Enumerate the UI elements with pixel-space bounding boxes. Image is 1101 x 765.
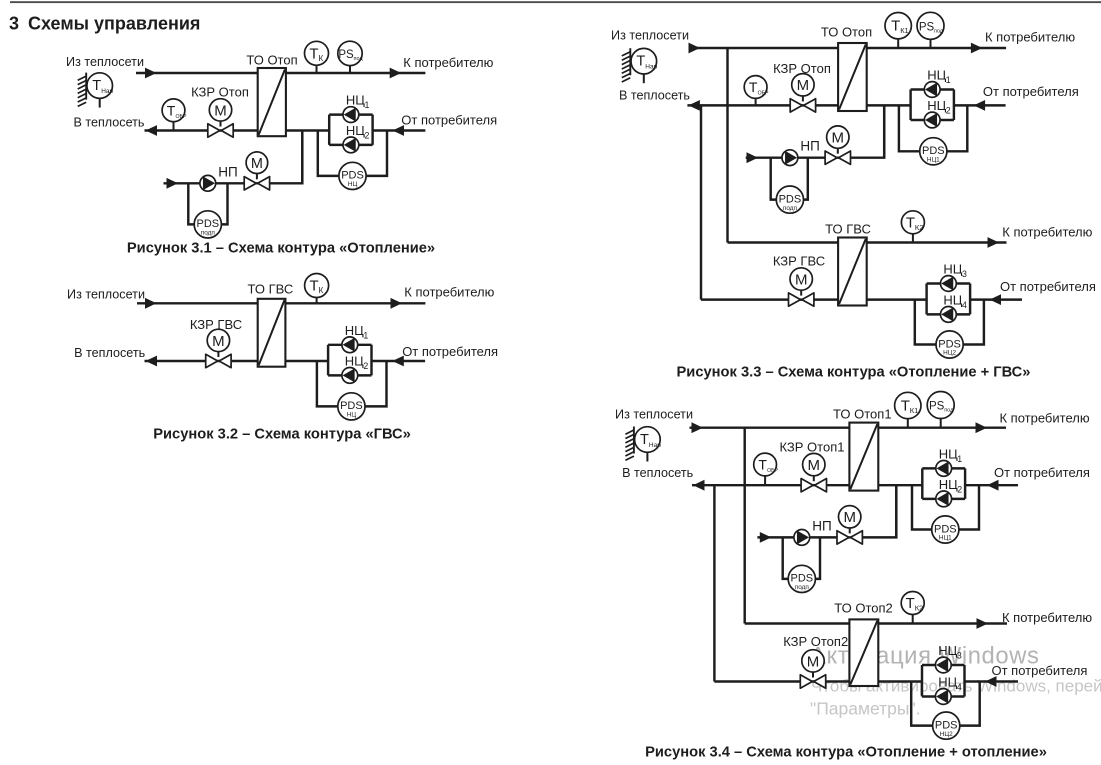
wire: fig 3.3 ГВС return pipe from consumer — [867, 298, 927, 300]
label НЦ2 (fig 3.4) — [939, 477, 963, 495]
svg-text:Рисунок 3.4 – Схема контура «О: Рисунок 3.4 – Схема контура «Отопление +… — [645, 744, 1047, 760]
svg-text:В теплосеть: В теплосеть — [74, 346, 145, 360]
svg-text:Рисунок 3.1 – Схема контура «О: Рисунок 3.1 – Схема контура «Отопление» — [127, 241, 435, 257]
wire: fig 3.1 PDS подп sensing loop — [188, 183, 227, 224]
watermark line 2 — [811, 677, 1101, 696]
svg-text:T: T — [167, 102, 176, 118]
label НЦ4 (fig 3.4) — [938, 675, 962, 693]
label КЗР Отоп1 (fig 3.4) — [780, 440, 845, 455]
label Из теплосети (fig 3.2) — [67, 288, 145, 302]
label КЗР Отоп (fig 3.3) — [773, 61, 831, 76]
svg-text:НЦ: НЦ — [347, 412, 357, 419]
arrow: make-up inlet (fig 3.1) — [167, 178, 179, 189]
svg-text:под: под — [934, 28, 944, 34]
sensor PDS НЦ2 (fig 3.4) — [933, 712, 960, 739]
label От потребителя (fig 3.4) — [994, 465, 1090, 480]
svg-text:подп: подп — [201, 230, 216, 237]
svg-text:PDS: PDS — [922, 145, 945, 157]
arrow: return flow (fig 3.2) — [146, 356, 158, 367]
wire: fig 3.4 make-up line riser to return pipe — [850, 485, 897, 537]
wire: fig 3.4 PDS НЦ1 sensing loop — [912, 485, 979, 529]
wire: fig 3.4 Отоп2 supply pipe to consumer — [878, 622, 1007, 624]
svg-text:К потребителю: К потребителю — [1002, 225, 1092, 240]
arrow: from consumer (fig 3.4) — [987, 480, 999, 491]
svg-text:НЦ1: НЦ1 — [939, 535, 952, 542]
label К потребителю Отоп2 (fig 3.4) — [1002, 610, 1092, 625]
svg-text:ОБР: ОБР — [767, 468, 778, 474]
svg-text:К2: К2 — [915, 223, 924, 232]
arrow: to consumer (fig 3.2) — [391, 298, 403, 309]
sensor PSпод supply pressure switch (fig 3.3) — [917, 12, 944, 48]
caption figure 3.2 — [153, 426, 411, 442]
pump НП (fig 3.3) — [782, 150, 798, 166]
sensor Tобр return temperature (fig 3.4) — [754, 453, 779, 485]
wire: fig 3.3 supply pipe from heat network — [689, 47, 838, 49]
valve with motor M on make-up line (fig 3.4) — [837, 506, 862, 545]
wire: fig 3.3 ГВС supply pipe — [728, 241, 839, 243]
wire: fig 3.2 return pipe to heat network — [145, 360, 258, 362]
label КЗР Отоп2 (fig 3.4) — [783, 634, 848, 649]
pump НЦ4 (fig 3.4) — [935, 689, 951, 705]
label КЗР Отоп (fig 3.1) — [191, 85, 249, 100]
svg-text:Из теплосети: Из теплосети — [611, 29, 689, 43]
valve КЗР Отоп1 with motor M (fig 3.4) — [801, 453, 826, 492]
label В теплосеть (fig 3.2) — [74, 346, 145, 360]
svg-text:К потребителю: К потребителю — [1002, 610, 1092, 625]
valve КЗР Отоп with motor M (fig 3.3) — [790, 74, 815, 112]
label К потребителю (fig 3.3) — [985, 30, 1075, 45]
sensor PDS подп (fig 3.3) — [776, 186, 803, 213]
wire: fig 3.1 return pipe from consumer — [286, 129, 329, 131]
svg-text:КЗР Отоп: КЗР Отоп — [191, 85, 249, 100]
wire: fig 3.2 PDS НЦ sensing loop — [317, 361, 387, 406]
svg-text:От потребителя: От потребителя — [1000, 279, 1096, 294]
svg-text:T: T — [640, 432, 649, 448]
wire: fig 3.3 PDS НЦ1 sensing loop — [899, 105, 967, 151]
svg-text:T: T — [906, 595, 915, 612]
sensor Tк2 ГВС supply temperature (fig 3.3) — [901, 211, 924, 243]
svg-text:ОБР: ОБР — [176, 114, 187, 120]
label В теплосеть (fig 3.4) — [622, 466, 693, 480]
label КЗР ГВС (fig 3.2) — [190, 317, 242, 332]
svg-text:К2: К2 — [915, 604, 924, 613]
svg-text:4: 4 — [957, 682, 962, 692]
label НЦ1 (fig 3.2) — [345, 323, 369, 341]
sensor PDS НЦ1 (fig 3.4) — [932, 516, 959, 543]
pump НЦ1 (fig 3.4) — [936, 461, 952, 477]
arrow: supply flow (fig 3.4) — [692, 422, 704, 433]
svg-text:M: M — [795, 271, 808, 288]
wire: fig 3.2 return pipe from consumer — [285, 360, 328, 362]
arrow: return flow (fig 3.1) — [146, 125, 158, 136]
label От потребителя (fig 3.3) — [983, 84, 1079, 99]
svg-text:подп: подп — [795, 584, 810, 591]
label ТО Отоп2 (fig 3.4) — [834, 601, 893, 616]
svg-text:Рисунок 3.3 – Схема контура «О: Рисунок 3.3 – Схема контура «Отопление +… — [677, 364, 1031, 380]
arrow: from consumer (fig 3.1) — [393, 125, 405, 136]
sensor PDS подп (fig 3.4) — [788, 565, 815, 592]
svg-text:Рисунок 3.2 – Схема контура «Г: Рисунок 3.2 – Схема контура «ГВС» — [153, 426, 411, 442]
label ТО Отоп1 (fig 3.4) — [833, 406, 892, 421]
heat exchanger ТО ГВС (fig 3.3) — [838, 238, 867, 306]
svg-text:T: T — [309, 45, 318, 62]
wire: fig 3.1 supply pipe from heat network — [136, 72, 258, 74]
valve with motor M on make-up line (fig 3.1) — [244, 152, 269, 190]
pump НЦ4 (fig 3.3) — [941, 307, 957, 323]
caption figure 3.3 — [677, 364, 1031, 380]
pump НЦ3 (fig 3.3) — [941, 276, 957, 292]
svg-text:T: T — [901, 398, 910, 415]
svg-text:ТО ГВС: ТО ГВС — [248, 282, 294, 297]
sensor Tк2 Отоп2 supply temperature (fig 3.4) — [901, 592, 924, 624]
wire: fig 3.4 return branch riser from Отоп2 circuit — [713, 485, 715, 681]
label ТО Отоп (fig 3.1) — [246, 53, 297, 68]
wire: fig 3.3 ГВС return pipe — [701, 298, 838, 300]
wire: fig 3.1 supply pipe to consumer — [286, 72, 426, 74]
svg-text:2: 2 — [957, 484, 962, 494]
wire: fig 3.3 pump-group frame (parallel branches НЦ) — [911, 90, 954, 121]
svg-text:ОБР: ОБР — [758, 91, 769, 97]
svg-text:3: 3 — [962, 269, 967, 279]
wire: fig 3.4 make-up line НП — [757, 536, 849, 538]
page top border line — [10, 1, 1101, 3]
label НЦ2 (fig 3.3) — [927, 98, 951, 116]
svg-text:Нар: Нар — [101, 88, 113, 95]
svg-text:PDS: PDS — [938, 338, 961, 350]
arrow: supply flow (fig 3.3) — [689, 43, 701, 54]
sensor Tнар outdoor temperature (fig 3.3) — [622, 48, 658, 83]
svg-text:От потребителя: От потребителя — [983, 84, 1079, 99]
label К потребителю (fig 3.4) — [1000, 411, 1090, 426]
pump НЦ2 (fig 3.2) — [342, 368, 358, 384]
valve КЗР ГВС with motor M (fig 3.3) — [789, 268, 814, 307]
svg-text:4: 4 — [962, 300, 967, 310]
svg-text:НЦ1: НЦ1 — [927, 157, 940, 164]
label От потребителя (fig 3.2) — [402, 344, 498, 359]
label К потребителю (fig 3.1) — [403, 55, 493, 70]
wire: fig 3.4 pump-group frame (parallel branches НЦ) — [922, 468, 965, 499]
svg-text:T: T — [92, 78, 101, 94]
svg-text:2: 2 — [946, 106, 951, 116]
label К потребителю ГВС (fig 3.3) — [1002, 225, 1092, 240]
svg-text:M: M — [797, 77, 810, 94]
pump НЦ3 (fig 3.4) — [935, 657, 951, 673]
svg-text:Из теплосети: Из теплосети — [66, 55, 144, 69]
arrow: return flow (fig 3.4) — [693, 480, 705, 491]
svg-text:1: 1 — [363, 330, 368, 340]
svg-text:3: 3 — [9, 14, 19, 34]
valve with motor M on make-up line (fig 3.3) — [825, 126, 850, 164]
wire: fig 3.1 PDS НЦ sensing loop — [318, 131, 387, 176]
sensor PSпод supply pressure switch (fig 3.1) — [338, 41, 364, 73]
svg-text:Нар: Нар — [649, 442, 661, 449]
svg-text:под: под — [354, 56, 364, 62]
svg-text:От потребителя: От потребителя — [994, 465, 1090, 480]
label В теплосеть (fig 3.3) — [619, 88, 690, 102]
svg-text:ТО ГВС: ТО ГВС — [825, 222, 871, 237]
valve КЗР Отоп2 with motor M (fig 3.4) — [800, 650, 825, 689]
svg-text:PS: PS — [338, 49, 354, 61]
valve КЗР Отоп with motor M (fig 3.1) — [208, 99, 233, 137]
wire: fig 3.1 pump-group frame (parallel branches НЦ) — [329, 115, 372, 145]
arrow: ГВС to consumer (fig 3.3) — [988, 237, 1000, 248]
wire: fig 3.2 return pipe right of pump group — [372, 360, 426, 362]
svg-text:1: 1 — [365, 100, 370, 110]
svg-text:ТО Отоп: ТО Отоп — [246, 53, 297, 68]
svg-text:НП: НП — [218, 164, 237, 179]
svg-text:В теплосеть: В теплосеть — [622, 466, 693, 480]
svg-text:Нар: Нар — [645, 64, 657, 71]
svg-text:КЗР Отоп2: КЗР Отоп2 — [783, 634, 848, 649]
label НЦ1 (fig 3.3) — [927, 68, 951, 86]
label НЦ1 (fig 3.4) — [939, 446, 963, 464]
svg-text:НЦ: НЦ — [346, 93, 365, 108]
svg-text:Из теплосети: Из теплосети — [67, 288, 145, 302]
watermark line 1 Активация Windows — [810, 643, 1040, 670]
label НЦ3 (fig 3.4) — [938, 643, 962, 661]
svg-text:T: T — [906, 214, 915, 231]
svg-text:К: К — [319, 286, 324, 295]
svg-text:M: M — [214, 102, 227, 119]
svg-text:T: T — [310, 278, 319, 295]
pump НЦ1 (fig 3.3) — [924, 82, 940, 98]
svg-text:PDS: PDS — [341, 170, 364, 182]
svg-text:M: M — [212, 333, 225, 350]
svg-text:К1: К1 — [900, 26, 909, 35]
sensor PDS НЦ (fig 3.1) — [339, 162, 366, 189]
label НП (fig 3.1) — [218, 164, 237, 179]
svg-text:M: M — [832, 130, 845, 147]
pump НЦ1 (fig 3.2) — [342, 337, 358, 353]
label От потребителя Отоп2 (fig 3.4) — [992, 663, 1088, 678]
wire: fig 3.2 supply pipe from heat network — [137, 302, 258, 304]
svg-text:PDS: PDS — [779, 193, 802, 205]
label ТО ГВС (fig 3.3) — [825, 222, 871, 237]
svg-text:НЦ2: НЦ2 — [940, 731, 953, 738]
label НП (fig 3.3) — [800, 139, 819, 154]
label НЦ2 (fig 3.1) — [346, 123, 370, 141]
wire: fig 3.3 pump-group frame (parallel branches НЦ) — [927, 284, 971, 315]
svg-text:НЦ: НЦ — [348, 181, 358, 188]
arrow: to consumer (fig 3.4) — [976, 422, 988, 433]
wire: fig 3.2 pump-group frame (parallel branches НЦ) — [328, 345, 371, 376]
sensor PDS НЦ2 (fig 3.3) — [936, 331, 963, 358]
heat exchanger ТО ГВС (fig 3.2) — [258, 299, 286, 367]
svg-text:PDS: PDS — [935, 719, 958, 731]
svg-text:НЦ: НЦ — [939, 477, 958, 492]
wire: fig 3.1 riser from return pipe to make-up line — [301, 131, 303, 184]
pump НЦ2 (fig 3.4) — [936, 491, 952, 507]
wire: fig 3.4 PDS подп sensing loop — [783, 537, 820, 579]
wire: fig 3.4 return pipe right of pump group — [965, 484, 1018, 486]
arrow: from consumer (fig 3.2) — [392, 356, 404, 367]
svg-text:"Параметры".: "Параметры". — [810, 699, 921, 719]
sensor PDS НЦ (fig 3.2) — [338, 393, 365, 420]
label В теплосеть (fig 3.1) — [73, 116, 144, 130]
svg-text:НЦ: НЦ — [938, 643, 957, 658]
svg-text:2: 2 — [365, 130, 370, 140]
label Из теплосети (fig 3.1) — [66, 55, 144, 69]
pump НЦ2 (fig 3.1) — [343, 137, 359, 153]
label НП (fig 3.4) — [812, 518, 831, 533]
svg-text:PDS: PDS — [790, 573, 813, 585]
svg-text:НЦ: НЦ — [939, 446, 958, 461]
heat exchanger ТО Отоп1 (fig 3.4) — [849, 423, 878, 491]
arrow: from consumer (fig 3.3) — [974, 100, 986, 111]
wire: fig 3.3 ГВС return pipe right of pump group — [970, 298, 1022, 300]
svg-text:M: M — [843, 509, 856, 526]
wire: fig 3.4 Отоп2 return pipe from consumer — [878, 680, 922, 682]
arrow: make-up inlet (fig 3.4) — [760, 532, 772, 543]
wire: fig 3.1 return pipe right of pump group — [373, 129, 426, 131]
svg-text:НЦ: НЦ — [345, 323, 364, 338]
heat exchanger ТО Отоп (fig 3.3) — [838, 43, 867, 111]
wire: fig 3.4 supply pipe from heat network — [690, 426, 850, 428]
sensor Tнар outdoor temperature (fig 3.4) — [625, 427, 661, 462]
svg-text:От потребителя: От потребителя — [992, 663, 1088, 678]
pump НЦ1 (fig 3.1) — [343, 107, 359, 123]
wire: fig 3.1 make-up line riser to return pipe — [257, 131, 302, 184]
svg-text:PDS: PDS — [196, 218, 219, 230]
svg-text:ТО Отоп: ТО Отоп — [821, 25, 872, 40]
svg-text:В теплосеть: В теплосеть — [619, 88, 690, 102]
svg-text:2: 2 — [363, 361, 368, 371]
svg-text:подп: подп — [783, 205, 798, 212]
svg-text:К1: К1 — [910, 406, 919, 415]
svg-text:T: T — [636, 54, 645, 70]
arrow: Отоп2 to consumer (fig 3.4) — [977, 618, 989, 629]
wire: fig 3.3 supply branch riser to ГВС circuit — [726, 48, 728, 243]
svg-text:PS: PS — [919, 21, 935, 33]
wire: fig 3.3 make-up line riser to return pipe — [838, 105, 884, 157]
label НЦ4 (fig 3.3) — [943, 292, 967, 310]
svg-text:К потребителю: К потребителю — [404, 284, 494, 299]
wire: fig 3.4 pump-group frame (parallel branches НЦ) — [922, 665, 965, 697]
wire: fig 3.3 return pipe to heat network — [687, 104, 838, 106]
svg-text:M: M — [807, 653, 820, 670]
arrow: return flow (fig 3.3) — [688, 100, 700, 111]
svg-text:К потребителю: К потребителю — [985, 30, 1075, 45]
wire: fig 3.3 make-up line НП — [746, 156, 838, 158]
svg-text:ТО Отоп2: ТО Отоп2 — [834, 601, 893, 616]
svg-text:НЦ: НЦ — [927, 98, 946, 113]
pump НП (fig 3.4) — [794, 530, 810, 546]
wire: fig 3.3 ГВС supply pipe to consumer — [867, 241, 1007, 243]
arrow: make-up inlet (fig 3.3) — [747, 152, 759, 163]
wire: fig 3.3 return pipe right of pump group — [954, 104, 1006, 106]
heat exchanger ТО Отоп (fig 3.1) — [258, 68, 286, 136]
svg-text:1: 1 — [946, 75, 951, 85]
svg-text:КЗР Отоп1: КЗР Отоп1 — [780, 440, 845, 455]
arrow: to consumer (fig 3.1) — [390, 68, 402, 79]
svg-text:Схемы управления: Схемы управления — [28, 14, 200, 34]
wire: fig 3.4 return pipe from consumer — [878, 484, 922, 486]
svg-text:НЦ2: НЦ2 — [943, 350, 956, 357]
wire: fig 3.1 return pipe to heat network — [145, 129, 258, 131]
svg-text:НЦ: НЦ — [346, 123, 365, 138]
svg-text:От потребителя: От потребителя — [402, 344, 498, 359]
wire: fig 3.1 make-up line НП — [164, 182, 257, 184]
svg-text:T: T — [758, 457, 767, 473]
label Из теплосети (fig 3.4) — [615, 408, 693, 422]
svg-text:1: 1 — [957, 454, 962, 464]
label ТО Отоп (fig 3.3) — [821, 25, 872, 40]
label От потребителя (fig 3.1) — [401, 113, 497, 128]
wire: fig 3.4 PDS НЦ2 sensing loop — [911, 682, 980, 726]
svg-text:НЦ: НЦ — [943, 292, 962, 307]
svg-text:ТО Отоп1: ТО Отоп1 — [833, 406, 892, 421]
heat exchanger ТО Отоп2 (fig 3.4) — [849, 619, 878, 686]
wire: fig 3.4 Отоп2 return pipe right of pump group — [965, 680, 1019, 682]
wire: fig 3.4 supply pipe to consumer — [878, 426, 1006, 428]
arrow: ГВС from consumer (fig 3.3) — [990, 294, 1002, 305]
wire: fig 3.4 Отоп2 supply pipe — [745, 622, 850, 624]
label От потребителя ГВС (fig 3.3) — [1000, 279, 1096, 294]
wire: fig 3.2 supply pipe to consumer — [285, 302, 425, 304]
svg-text:НЦ: НЦ — [927, 68, 946, 83]
wire: fig 3.3 supply pipe to consumer — [867, 47, 1006, 49]
wire: fig 3.4 riser from return pipe to make-up line — [895, 485, 897, 537]
arrow: Отоп2 from consumer (fig 3.4) — [985, 676, 997, 687]
svg-text:К потребителю: К потребителю — [1000, 411, 1090, 426]
heading 3 Схемы управления — [9, 14, 200, 34]
caption figure 3.4 — [645, 744, 1047, 760]
svg-text:НЦ: НЦ — [943, 262, 962, 277]
watermark line 3 — [810, 699, 921, 719]
wire: fig 3.4 return pipe to heat network — [692, 484, 849, 486]
wire: fig 3.3 return branch riser from ГВС circuit — [700, 105, 702, 299]
sensor Tк supply temperature (fig 3.1) — [305, 41, 329, 73]
arrow: supply flow (fig 3.2) — [145, 298, 157, 309]
svg-text:НП: НП — [800, 139, 819, 154]
svg-text:НЦ: НЦ — [938, 675, 957, 690]
wire: fig 3.3 riser from return pipe to make-up line — [883, 105, 885, 157]
wire: fig 3.3 return pipe from consumer — [867, 104, 911, 106]
svg-text:M: M — [251, 156, 263, 172]
svg-text:PDS: PDS — [934, 523, 957, 535]
sensor Tк1 supply temperature (fig 3.4) — [895, 392, 921, 427]
svg-text:T: T — [749, 79, 758, 95]
valve КЗР ГВС with motor M (fig 3.2) — [206, 329, 231, 368]
svg-text:КЗР ГВС: КЗР ГВС — [773, 254, 825, 269]
label Из теплосети (fig 3.3) — [611, 29, 689, 43]
sensor PDS подп (fig 3.1) — [194, 211, 221, 238]
svg-text:От потребителя: От потребителя — [401, 113, 497, 128]
svg-text:T: T — [891, 18, 900, 35]
svg-text:Из теплосети: Из теплосети — [615, 408, 693, 422]
svg-text:под: под — [944, 408, 954, 414]
sensor Tобр return temperature (fig 3.1) — [162, 99, 187, 131]
wire: fig 3.3 PDS НЦ2 sensing loop — [915, 300, 984, 345]
svg-text:PS: PS — [929, 401, 945, 413]
svg-text:К: К — [319, 54, 324, 63]
svg-text:В теплосеть: В теплосеть — [73, 116, 144, 130]
svg-text:НП: НП — [812, 518, 831, 533]
arrow: to consumer (fig 3.3) — [971, 43, 983, 54]
sensor Tк supply temperature (fig 3.2) — [305, 274, 329, 304]
label НЦ3 (fig 3.3) — [943, 262, 967, 280]
pump НЦ2 (fig 3.3) — [924, 112, 940, 128]
label НЦ1 (fig 3.1) — [346, 93, 370, 111]
pump НП (fig 3.1) — [200, 175, 216, 191]
label КЗР ГВС (fig 3.3) — [773, 254, 825, 269]
svg-text:НЦ: НЦ — [345, 353, 364, 368]
svg-text:M: M — [808, 457, 821, 474]
sensor Tнар outdoor temperature (fig 3.1) — [78, 73, 114, 108]
wire: fig 3.4 supply branch riser to Отоп2 circuit — [743, 428, 745, 624]
sensor PSпод supply pressure switch (fig 3.4) — [927, 392, 954, 428]
label НЦ2 (fig 3.2) — [345, 353, 369, 371]
